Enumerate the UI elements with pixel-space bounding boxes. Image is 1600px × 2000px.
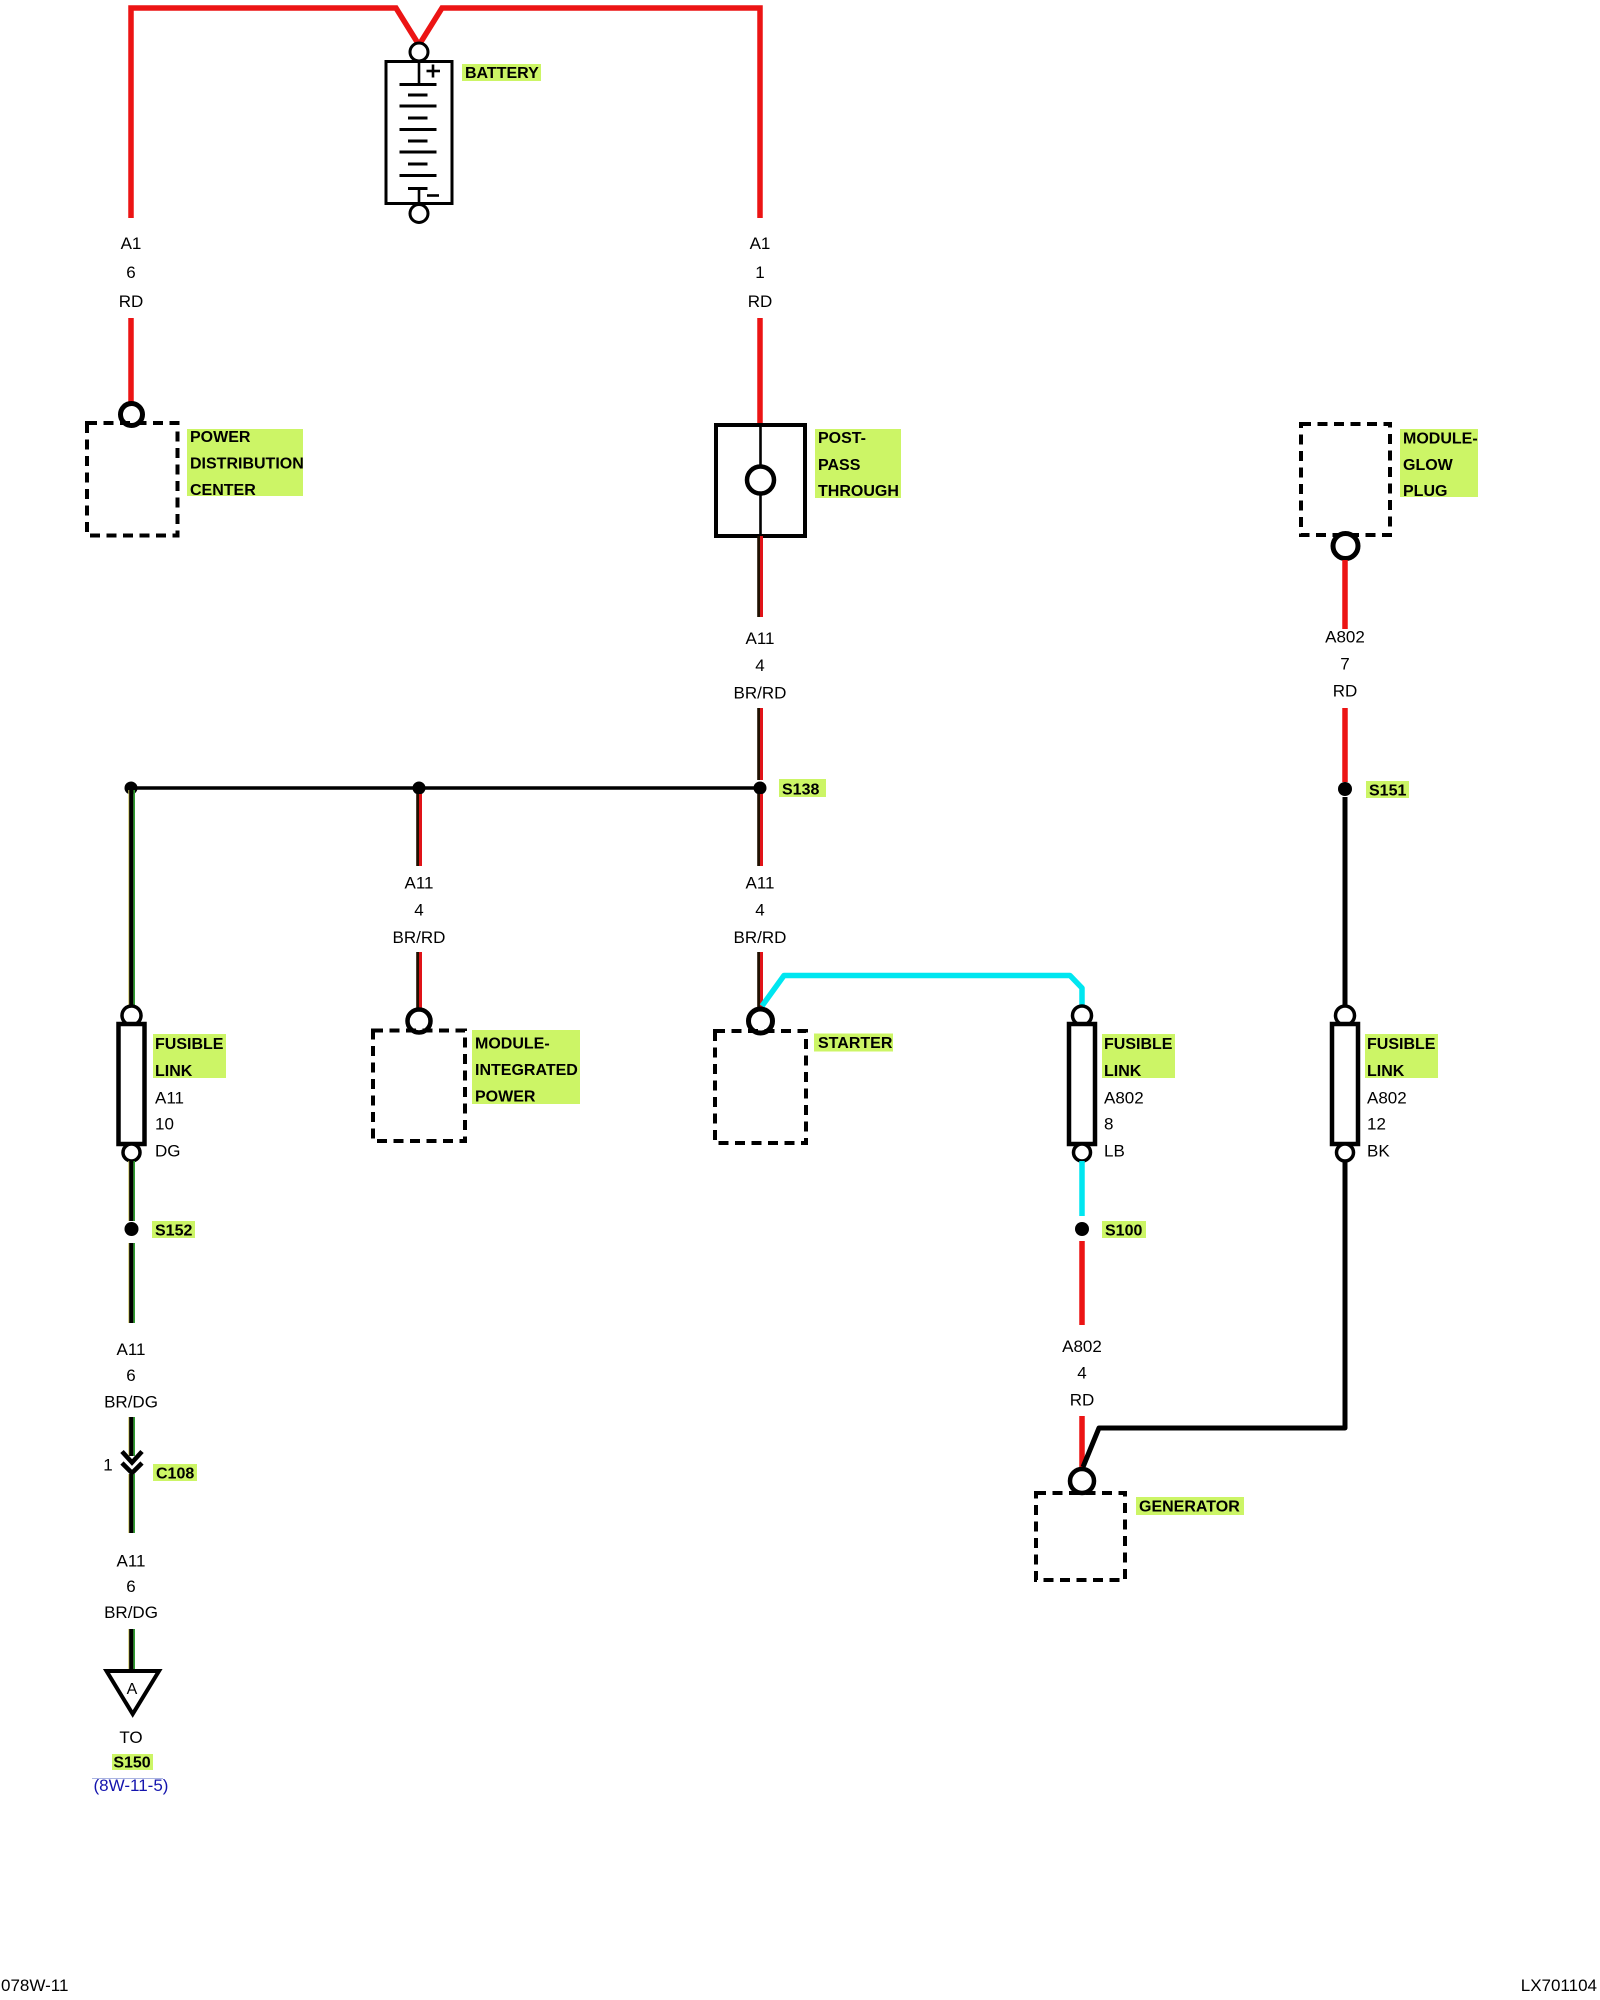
label TO S150 <box>112 1728 153 1772</box>
svg-text:LINK: LINK <box>1104 1063 1142 1080</box>
label STARTER <box>814 1034 893 1053</box>
svg-text:4: 4 <box>755 656 764 675</box>
svg-text:6: 6 <box>126 1577 135 1596</box>
label GENERATOR <box>1136 1497 1244 1516</box>
wire: red A1 1 to post pass through <box>757 318 763 425</box>
svg-text:S100: S100 <box>1105 1223 1142 1240</box>
svg-text:A802: A802 <box>1325 628 1365 647</box>
label S138 <box>779 779 826 799</box>
fusible link A802 8 <box>1069 1006 1095 1161</box>
label BATTERY <box>462 64 541 82</box>
svg-text:TO: TO <box>119 1728 142 1747</box>
svg-text:A802: A802 <box>1062 1337 1102 1356</box>
label MODULE-GLOW PLUG <box>1400 429 1478 500</box>
svg-text:A802: A802 <box>1367 1089 1407 1108</box>
post-pass through stud <box>716 425 805 536</box>
svg-text:A1: A1 <box>750 234 771 253</box>
splice S100 <box>1075 1222 1089 1236</box>
splice S152 <box>125 1222 139 1236</box>
wire: LB cyan starter to fusible link <box>762 976 1082 1008</box>
battery case <box>386 62 452 204</box>
svg-text:THROUGH: THROUGH <box>818 483 899 500</box>
generator box <box>1036 1493 1125 1580</box>
wire: BR/DG to ground <box>129 1629 134 1671</box>
wire: BR/DG S152 to label <box>129 1243 134 1323</box>
svg-text:1: 1 <box>755 263 764 282</box>
svg-text:LX701104: LX701104 <box>1521 1976 1597 1995</box>
svg-text:4: 4 <box>414 901 423 920</box>
splice S151 <box>1338 782 1352 796</box>
battery bottom terminal <box>410 205 428 223</box>
wire: RD into generator <box>1079 1416 1085 1468</box>
battery + sign <box>427 70 441 73</box>
svg-text:BR/DG: BR/DG <box>104 1393 158 1412</box>
battery bottom lead <box>418 189 421 205</box>
terminal eyelet at MIP <box>408 1010 431 1033</box>
svg-text:C108: C108 <box>156 1466 194 1483</box>
svg-text:BK: BK <box>1367 1142 1390 1161</box>
svg-text:A11: A11 <box>746 874 775 893</box>
wire: BR/RD below post pass through (upper) <box>759 536 762 617</box>
label C108 <box>153 1464 197 1483</box>
svg-text:4: 4 <box>755 901 764 920</box>
svg-text:S151: S151 <box>1369 783 1406 800</box>
wire label A1 1 RD (right) <box>748 234 773 311</box>
svg-text:BR/RD: BR/RD <box>393 928 446 947</box>
wire: bus from S138 <box>131 786 760 790</box>
svg-text:(8W-11-5): (8W-11-5) <box>94 1776 169 1795</box>
battery internal lead <box>418 62 421 85</box>
wire label A11 6 BR/DG (upper) <box>104 1340 158 1412</box>
svg-text:S152: S152 <box>155 1223 192 1240</box>
svg-text:RD: RD <box>748 292 773 311</box>
reference (8W-11-5) <box>92 1776 168 1795</box>
svg-text:10: 10 <box>155 1115 174 1134</box>
svg-text:MODULE-: MODULE- <box>1403 431 1478 448</box>
svg-text:PLUG: PLUG <box>1403 483 1447 500</box>
svg-text:FUSIBLE: FUSIBLE <box>1104 1036 1173 1053</box>
svg-text:STARTER: STARTER <box>818 1035 893 1052</box>
module-integrated power box <box>373 1031 465 1142</box>
battery B1 <box>386 43 452 223</box>
fusible link A802 12 <box>1332 1006 1358 1161</box>
wire: BK S151 to fusible link <box>1343 797 1348 1007</box>
svg-text:8: 8 <box>1104 1115 1113 1134</box>
label POST-PASS THROUGH <box>815 429 901 500</box>
terminal eyelet at starter <box>749 1009 773 1033</box>
connector C108 arrow <box>122 1452 142 1474</box>
svg-text:DG: DG <box>155 1142 181 1161</box>
wire label A1 6 RD (left) <box>119 234 144 311</box>
wire: BR/DG into C108 <box>129 1417 134 1456</box>
svg-text:BR/RD: BR/RD <box>734 684 787 703</box>
battery plates short <box>408 94 428 97</box>
svg-text:A802: A802 <box>1104 1089 1144 1108</box>
svg-text:LINK: LINK <box>155 1063 193 1080</box>
wire label A11 4 BR/RD (upper) <box>734 629 787 703</box>
wire label A11 4 BR/RD (starter) <box>734 874 787 948</box>
wire label A802 7 RD <box>1325 628 1365 701</box>
splice S138 <box>754 782 767 795</box>
svg-text:FUSIBLE: FUSIBLE <box>1367 1036 1436 1053</box>
label POWER DISTRIBUTION CENTER <box>187 429 304 499</box>
wire: BR/DG below C108 <box>129 1474 134 1533</box>
wire: battery to right red A1 <box>419 8 760 218</box>
wire label A11 4 BR/RD (mid) <box>393 874 446 948</box>
svg-text:RD: RD <box>119 292 144 311</box>
svg-text:A11: A11 <box>155 1089 184 1108</box>
svg-text:GLOW: GLOW <box>1403 457 1454 474</box>
wire: RD S100 down <box>1079 1241 1085 1325</box>
wire: battery feed red A1 top loop <box>131 8 419 218</box>
wire: BK fusible link to generator <box>1083 1161 1345 1467</box>
svg-text:POWER: POWER <box>190 429 251 446</box>
svg-text:A11: A11 <box>117 1552 146 1571</box>
svg-text:12: 12 <box>1367 1115 1386 1134</box>
svg-text:GENERATOR: GENERATOR <box>1139 1499 1240 1516</box>
wire: DG drop from bus (left) <box>129 790 134 1006</box>
svg-text:4: 4 <box>1077 1364 1086 1383</box>
module-glow plug box <box>1301 424 1390 535</box>
junction left <box>125 782 138 795</box>
wire: BR/RD to splice S138 <box>759 708 762 780</box>
starter box <box>715 1031 806 1143</box>
junction mid <box>413 782 426 795</box>
svg-text:POST-: POST- <box>818 430 866 447</box>
label MODULE-INTEGRATED POWER <box>472 1030 580 1106</box>
terminal eyelet at PDC <box>121 404 143 426</box>
terminal eyelet at glow plug module <box>1333 534 1358 559</box>
svg-text:1: 1 <box>103 1456 112 1475</box>
battery plates long <box>400 83 437 86</box>
svg-text:6: 6 <box>126 263 135 282</box>
wire: DG below fusible link <box>129 1161 134 1221</box>
svg-text:6: 6 <box>126 1366 135 1385</box>
svg-text:LINK: LINK <box>1367 1063 1405 1080</box>
svg-text:DISTRIBUTION: DISTRIBUTION <box>190 456 304 473</box>
svg-text:S150: S150 <box>113 1755 150 1772</box>
fusible link A11 (left) <box>119 1006 145 1161</box>
svg-text:078W-11: 078W-11 <box>1 1976 68 1995</box>
svg-text:A1: A1 <box>121 234 142 253</box>
terminal eyelet at generator <box>1070 1469 1094 1493</box>
label S100 <box>1102 1221 1146 1240</box>
wire: BR/RD drop to module-integrated power <box>418 794 421 866</box>
svg-text:PASS: PASS <box>818 457 861 474</box>
svg-text:POWER: POWER <box>475 1089 536 1106</box>
label FUSIBLE LINK A802 12 BK <box>1365 1034 1438 1161</box>
wire: BR/RD into starter terminal <box>759 952 762 1009</box>
wire label A11 6 BR/DG (lower) <box>104 1552 158 1623</box>
svg-text:A11: A11 <box>117 1340 146 1359</box>
svg-text:LB: LB <box>1104 1142 1125 1161</box>
wire: RD to splice S151 <box>1342 708 1348 782</box>
wire label A802 4 RD <box>1062 1337 1102 1410</box>
wire: BR/RD drop to starter <box>759 794 762 866</box>
svg-text:RD: RD <box>1333 682 1358 701</box>
label S152 <box>152 1221 195 1240</box>
wire: RD from glow plug module <box>1342 560 1348 629</box>
svg-text:A: A <box>127 1681 138 1698</box>
svg-text:7: 7 <box>1340 655 1349 674</box>
wire: LB below fusible link <box>1079 1161 1085 1216</box>
svg-text:FUSIBLE: FUSIBLE <box>155 1036 224 1053</box>
svg-text:MODULE-: MODULE- <box>475 1036 550 1053</box>
label FUSIBLE LINK A11 10 DG <box>153 1034 226 1161</box>
battery top terminal <box>410 43 428 61</box>
label S151 <box>1366 781 1409 800</box>
svg-text:INTEGRATED: INTEGRATED <box>475 1062 578 1079</box>
wire: red A1 6 to PDC <box>128 318 134 402</box>
label FUSIBLE LINK A802 8 LB <box>1102 1034 1175 1161</box>
ground G100 triangle A <box>107 1671 160 1714</box>
svg-text:RD: RD <box>1070 1391 1095 1410</box>
svg-text:A11: A11 <box>405 874 434 893</box>
svg-text:BR/RD: BR/RD <box>734 928 787 947</box>
svg-text:CENTER: CENTER <box>190 482 256 499</box>
power distribution center box <box>87 423 178 536</box>
wire: BR/RD into MIP terminal <box>418 952 421 1009</box>
svg-text:BR/DG: BR/DG <box>104 1603 158 1622</box>
svg-text:A11: A11 <box>746 629 775 648</box>
svg-text:S138: S138 <box>782 782 819 799</box>
svg-text:BATTERY: BATTERY <box>465 65 539 82</box>
battery - sign <box>427 194 439 197</box>
